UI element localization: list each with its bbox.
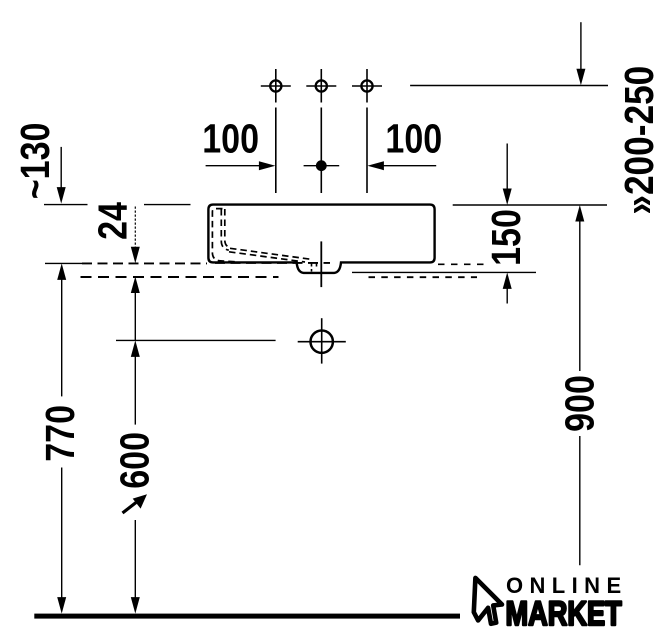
dimension 24 bottom up arrow on 600 line: [131, 277, 140, 341]
svg-text:100: 100: [202, 115, 259, 161]
tap centerline middle vertical: [320, 108, 322, 194]
left reference tick at basin top (for ~130): [44, 204, 88, 206]
svg-text:MARKET: MARKET: [506, 594, 622, 633]
basin inner bowl hidden inner dashed line: [221, 209, 229, 250]
svg-text:100: 100: [385, 115, 442, 161]
wall hidden dashed line under basin: [215, 262, 330, 264]
dimension arrow 100 right: [367, 161, 436, 170]
short horizontal line through dot: [304, 165, 340, 167]
logo cursor icon: [474, 578, 502, 624]
svg-text:»200-250: »200-250: [616, 66, 662, 215]
supply reference solid line right: [352, 271, 536, 273]
dimension 150 bottom line with up arrow: [503, 272, 512, 303]
tap hole circle left: [261, 69, 291, 103]
basin inner bowl hidden second inner dashed line: [225, 209, 231, 248]
right reference line at basin top: [453, 204, 607, 206]
left reference tick at basin top (right of 24 label): [144, 204, 191, 206]
svg-text:900: 900: [557, 375, 603, 432]
dimension ~130 vertical line with down arrow: [57, 147, 66, 204]
tap hole circle right: [352, 69, 382, 103]
lower hidden dashed line right: [369, 276, 478, 278]
basin inner bowl hidden outer dashed line: [212, 209, 236, 262]
top right reference line (tap level): [410, 85, 608, 87]
dimension 900 vertical line with up arrow: [575, 205, 584, 565]
wall hidden dashed line left of basin: [82, 262, 207, 264]
bowl floor lower slant dashed line: [229, 252, 305, 262]
tap centerline left vertical: [275, 108, 277, 194]
basin centerline lower segment: [320, 241, 322, 287]
adjustable height NE mini arrow: [123, 494, 148, 513]
dimension 150 top line with down arrow: [503, 144, 512, 206]
bowl floor upper slant dashed line: [230, 248, 311, 259]
svg-text:600: 600: [112, 432, 158, 489]
tap hole circle center: [306, 69, 336, 103]
svg-text:24: 24: [89, 202, 135, 240]
dimension 600 vertical line: [131, 340, 140, 613]
tap centerline right vertical: [366, 108, 368, 194]
svg-text:770: 770: [37, 405, 83, 462]
filled center dot: [316, 160, 327, 171]
svg-text:150: 150: [483, 209, 529, 266]
logo white background: [463, 566, 671, 640]
basin outline: [208, 205, 434, 273]
drain outlet reference line: [116, 339, 276, 341]
dimension arrow 100 left: [206, 161, 276, 170]
drain trap hidden dashes in recess: [312, 264, 317, 272]
dimension 200-250 upper line with down arrow: [576, 22, 585, 85]
dimension 24 line with down arrow: [131, 207, 140, 264]
wall hidden dashed line right of basin: [438, 263, 484, 265]
drain outlet circle: [298, 318, 346, 363]
lower hidden dashed line left: [81, 276, 279, 278]
floor line: [34, 614, 460, 619]
dimension 770 vertical line: [57, 263, 66, 613]
svg-text:~130: ~130: [12, 123, 58, 200]
wall top reference solid line left: [45, 262, 82, 264]
